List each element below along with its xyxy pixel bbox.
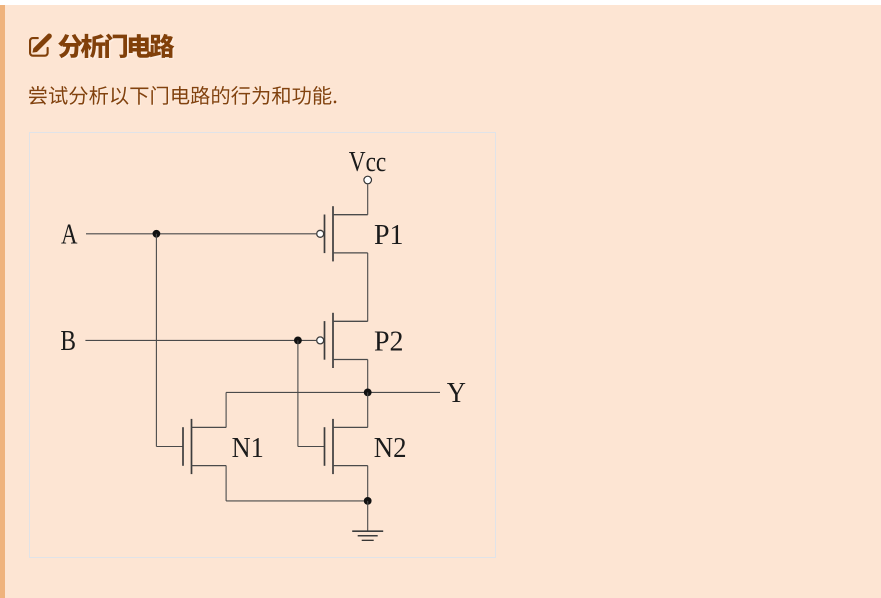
wire Y to N2 drain [367, 392, 369, 427]
junction ground node [364, 497, 372, 505]
transistor N2 [325, 419, 368, 474]
wire P1 drain to P2 source [367, 253, 369, 322]
wire B to N2 gate horizontal [298, 446, 325, 448]
wire P2 drain to Y [367, 360, 369, 393]
wire A to N1 gate horizontal [156, 446, 183, 448]
heading 分析门电路 [58, 34, 176, 60]
wire B lead [85, 339, 316, 341]
transistor P2 [317, 313, 368, 368]
svg-text:P1: P1 [374, 220, 404, 251]
wire Vcc to P1 source [367, 184, 369, 215]
ground [352, 501, 383, 540]
svg-text:A: A [61, 220, 78, 251]
svg-text:P2: P2 [374, 327, 404, 358]
wire N2 source down [367, 466, 369, 501]
junction Y node [364, 389, 372, 397]
wire N1 source down [225, 466, 227, 501]
wire B to N2 gate vertical [297, 340, 299, 446]
paragraph 尝试分析以下门电路的行为和功能. [29, 86, 337, 106]
svg-text:N2: N2 [374, 433, 407, 464]
wire A to N1 gate vertical [155, 234, 157, 447]
svg-text:B: B [60, 326, 76, 357]
svg-text:Y: Y [447, 378, 466, 409]
transistor N1 [183, 419, 226, 474]
icon edit/pen-square [29, 34, 52, 57]
svg-text:N1: N1 [232, 433, 264, 464]
junction A node [153, 230, 161, 238]
transistor P1 [317, 206, 368, 261]
power terminal Vcc [364, 176, 372, 184]
wire ground rail [226, 500, 368, 502]
wire Y to N1 drain [225, 392, 227, 427]
wire A lead [86, 233, 317, 235]
junction B node [294, 337, 302, 345]
wire Y rail [226, 391, 440, 393]
svg-text:Vcc: Vcc [349, 147, 387, 178]
